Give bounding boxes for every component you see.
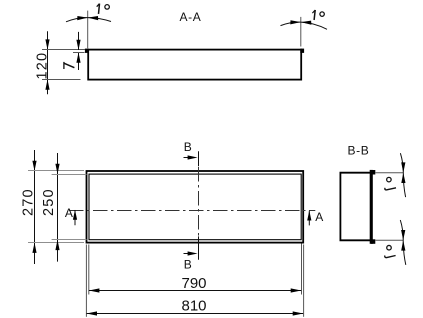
svg-text:B: B <box>184 258 192 272</box>
svg-text:B-B: B-B <box>348 143 370 157</box>
svg-text:250: 250 <box>41 188 57 216</box>
svg-text:A-A: A-A <box>180 10 202 24</box>
svg-text:B: B <box>184 140 192 154</box>
svg-text:A: A <box>315 210 323 224</box>
svg-text:270: 270 <box>21 188 37 216</box>
svg-text:810: 810 <box>181 298 206 315</box>
svg-text:A: A <box>65 206 73 220</box>
svg-text:790: 790 <box>181 275 206 292</box>
svg-text:120: 120 <box>35 52 51 80</box>
